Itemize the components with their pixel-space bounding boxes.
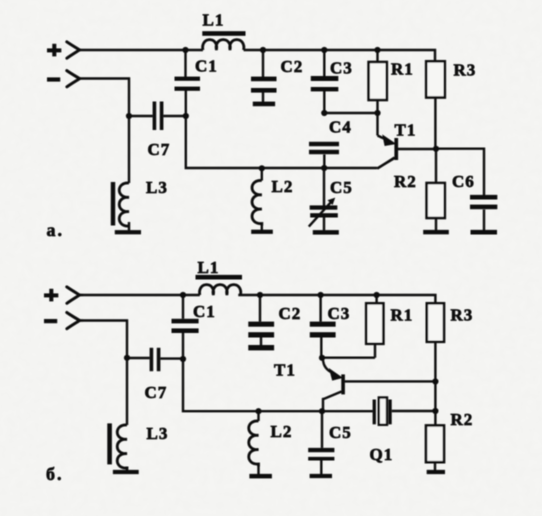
svg-text:R1: R1	[391, 60, 414, 79]
svg-text:L1: L1	[198, 258, 220, 277]
svg-text:C1: C1	[193, 302, 216, 321]
svg-text:R2: R2	[451, 410, 474, 429]
svg-text:C6: C6	[452, 172, 475, 191]
svg-text:R3: R3	[454, 61, 477, 80]
svg-text:C3: C3	[328, 304, 351, 323]
svg-text:R3: R3	[451, 306, 474, 325]
svg-text:C3: C3	[330, 59, 353, 78]
svg-text:C5: C5	[329, 423, 352, 442]
svg-text:R2: R2	[394, 172, 417, 191]
svg-text:C2: C2	[279, 304, 302, 323]
svg-text:L3: L3	[147, 424, 169, 443]
svg-text:C5: C5	[330, 178, 353, 197]
svg-text:Q1: Q1	[370, 445, 394, 464]
svg-text:C7: C7	[148, 140, 171, 159]
svg-text:L2: L2	[271, 422, 293, 441]
svg-text:T1: T1	[274, 361, 296, 380]
svg-text:L2: L2	[272, 177, 294, 196]
svg-text:б.: б.	[46, 464, 64, 484]
svg-text:L1: L1	[203, 10, 225, 29]
svg-text:T1: T1	[395, 121, 417, 140]
svg-text:C1: C1	[195, 57, 218, 76]
svg-text:C4: C4	[329, 118, 352, 137]
svg-text:L3: L3	[146, 178, 168, 197]
svg-text:a.: a.	[47, 220, 65, 240]
svg-text:C2: C2	[281, 57, 304, 76]
svg-text:R1: R1	[391, 306, 414, 325]
svg-text:C7: C7	[145, 383, 168, 402]
